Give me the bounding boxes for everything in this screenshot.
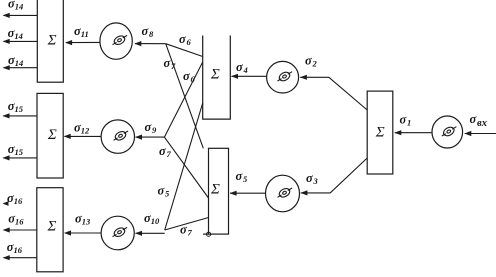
activation circle F2 (upper-middle)	[267, 61, 299, 93]
arrowhead sigma4	[231, 74, 238, 79]
svg-text:σ14: σ14	[8, 53, 23, 68]
svg-text:σ6: σ6	[179, 32, 192, 47]
wire L1: junction J1 to S2 (sigma6)	[166, 44, 203, 57]
wire: arrow sigma10 into F6	[136, 232, 165, 234]
svg-text:σ1: σ1	[400, 112, 412, 127]
svg-text:σ15: σ15	[8, 142, 24, 157]
svg-text:σ7: σ7	[180, 222, 193, 237]
wire: arrow sigma1 from F1 to S1	[395, 132, 432, 134]
arrowhead sigma2	[300, 75, 307, 80]
svg-text:σ16: σ16	[7, 191, 23, 206]
wire L6: junction J3 to S3 (sigma7)	[165, 218, 209, 231]
svg-text:σ14: σ14	[8, 26, 23, 41]
svg-text:σ5: σ5	[236, 169, 249, 184]
arrowhead sigma10	[135, 231, 142, 236]
svg-text:σ6: σ6	[183, 69, 196, 84]
summator block S1 (right)	[367, 91, 393, 174]
wire: arrow sigma11 from F4 to S4	[66, 41, 100, 43]
arrowhead sigma1	[394, 130, 401, 135]
arrowhead output 2 S5	[3, 155, 10, 160]
activation circle F6 (bottom-left)	[101, 216, 134, 250]
phi symbol in F4	[113, 34, 128, 46]
arrowhead output 1 S5	[3, 113, 10, 118]
arrowhead sigma13	[64, 230, 71, 235]
wire: output arrow 2 of S6	[4, 257, 37, 259]
svg-text:σ11: σ11	[74, 24, 89, 39]
svg-text:σ3: σ3	[306, 171, 319, 186]
summator block S5 (middle-left)	[37, 93, 63, 178]
arrowhead sigma3	[300, 190, 307, 195]
phi symbol in F5	[114, 130, 129, 142]
wire: output arrow 3 of S4	[4, 67, 38, 69]
arrowhead output 2 S4	[3, 39, 10, 44]
arrowhead stub output sigma16 top of S6	[3, 201, 9, 206]
wire: arrow sigma12 from F5 to S5	[65, 135, 102, 137]
svg-text:σ5: σ5	[158, 183, 171, 198]
phi symbol in F2	[278, 71, 293, 83]
svg-text:σ8: σ8	[142, 24, 155, 39]
endpoint circle at S3 corner	[207, 232, 211, 236]
wire: arrow sigma13 from F6 to S6	[65, 232, 101, 234]
svg-text:σ13: σ13	[75, 212, 91, 227]
svg-text:σ7: σ7	[164, 56, 177, 71]
summator block S3 (lower-middle)	[209, 148, 229, 234]
arrowhead sigma12	[64, 134, 71, 139]
wire: output arrow 2 of S5	[3, 157, 37, 159]
svg-text:Σ: Σ	[210, 181, 220, 197]
wire: arrow sigma9 into F5	[136, 136, 165, 138]
arrowhead sigma9	[135, 135, 142, 140]
phi symbol in F3	[278, 187, 293, 199]
wire L5: S2 to junction J3 (sigma5)	[165, 103, 203, 230]
svg-text:Σ: Σ	[375, 125, 385, 141]
svg-text:Σ: Σ	[47, 33, 57, 49]
svg-text:σ2: σ2	[305, 54, 318, 69]
svg-text:σвх: σвх	[470, 112, 488, 129]
svg-text:σ9: σ9	[145, 120, 158, 135]
svg-text:Σ: Σ	[47, 218, 57, 234]
svg-text:σ10: σ10	[144, 211, 160, 226]
svg-text:σ16: σ16	[7, 240, 23, 255]
arrowhead output 1 S6	[3, 227, 10, 232]
wire: output arrow 1 of S4	[4, 14, 38, 16]
wire: arrow sigma8 into F4	[135, 43, 166, 45]
svg-text:σ14: σ14	[8, 0, 23, 11]
wire: arrow sigma5 from F3 to S3	[230, 192, 266, 194]
summator block S6 (bottom-left)	[37, 188, 63, 272]
svg-text:Σ: Σ	[210, 66, 220, 82]
svg-text:σ12: σ12	[74, 121, 90, 136]
arrowhead sigma5	[230, 191, 237, 196]
wire: arrow sigma4 from F2 to S2	[232, 75, 267, 77]
svg-text:σ15: σ15	[8, 99, 24, 114]
wire: input arrow sigma-vx into F1	[465, 133, 496, 135]
wire L2: S3 top corner to junction J1 (sigma7)	[166, 44, 204, 149]
activation circle F4 (top-left)	[100, 23, 132, 59]
arrowhead sigma8	[134, 41, 141, 46]
arrowhead sigma11	[65, 40, 72, 45]
wire: output arrow 1 of S5	[3, 115, 37, 117]
arrowhead output 3 S4	[3, 65, 10, 70]
svg-text:σ16: σ16	[8, 211, 24, 226]
wire: arrow sigma3 from S1 to F3	[301, 158, 368, 193]
svg-text:σ4: σ4	[236, 60, 248, 75]
wire: arrow sigma2 from S1 to F2	[300, 77, 367, 110]
activation circle F3 (lower-middle)	[266, 175, 300, 212]
wire L4: junction J2 to S3 (sigma7)	[164, 137, 208, 198]
arrowhead output 1 S4	[3, 13, 10, 18]
wire: output arrow 2 of S4	[4, 40, 38, 42]
svg-text:Σ: Σ	[47, 127, 57, 143]
phi symbol in F1	[442, 126, 457, 138]
summator block S4 (top-left)	[37, 0, 63, 82]
svg-text:σ7: σ7	[159, 144, 172, 159]
activation circle F1 (right input)	[432, 116, 463, 148]
arrowhead output 2 S6	[3, 255, 10, 260]
activation circle F5 (middle-left)	[101, 120, 134, 153]
wire L3: S2 to junction J2 (sigma6)	[164, 62, 202, 137]
summator block S2 (upper-middle, open top)	[203, 36, 231, 120]
stray bottom edge of S3	[203, 233, 208, 235]
wire: output arrow 1 of S6	[4, 229, 37, 231]
phi symbol in F6	[113, 226, 128, 238]
arrowhead sigma-vx	[464, 131, 471, 136]
